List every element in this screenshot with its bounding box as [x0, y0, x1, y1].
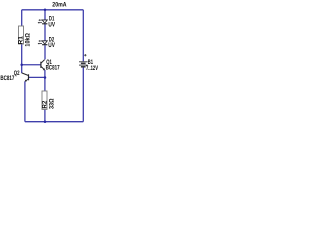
svg-text:20mA: 20mA [52, 2, 66, 9]
svg-text:33Ω: 33Ω [48, 99, 55, 110]
svg-text:UV: UV [48, 42, 55, 49]
wire Q2 collector vertical [21, 65, 23, 73]
wire left column to R1 top [21, 10, 23, 26]
battery B1 [79, 62, 88, 67]
node B junction dot [44, 76, 47, 79]
wire top rail [22, 9, 84, 11]
node A junction dot [20, 64, 23, 67]
background [0, 0, 107, 130]
resistor R1 [18, 26, 32, 47]
svg-text:10kΩ: 10kΩ [25, 33, 32, 47]
node bottom junction dot [44, 120, 47, 123]
wire Q2 base to node B [29, 76, 45, 78]
wire battery top [82, 10, 84, 62]
wire R1 bottom to node A [21, 44, 23, 65]
LED D2 [38, 40, 48, 45]
LED D1 [38, 19, 48, 24]
wire top dot to D1 anode [44, 10, 46, 20]
svg-text:BC817: BC817 [46, 65, 60, 72]
transistor Q1 [41, 60, 45, 71]
wire Q1 emitter to R2 top [44, 70, 46, 91]
svg-text:Q2: Q2 [14, 70, 20, 77]
wire D1 cathode to D2 anode [44, 24, 46, 41]
wire D2 cathode to Q1 collector [44, 45, 46, 59]
battery plus sign [84, 54, 86, 56]
wire node A to Q1 base [22, 64, 41, 66]
svg-text:BC817: BC817 [0, 75, 14, 82]
transistor Q2 [22, 73, 29, 82]
wire bottom rail [25, 121, 83, 123]
svg-text:7..12V: 7..12V [86, 65, 98, 72]
wire battery bottom [82, 67, 84, 122]
wire R2 bottom down [44, 109, 46, 121]
svg-text:UV: UV [48, 21, 55, 28]
node top junction dot [44, 9, 47, 12]
wire Q2 emitter down [24, 81, 26, 121]
resistor R2 [41, 91, 55, 109]
